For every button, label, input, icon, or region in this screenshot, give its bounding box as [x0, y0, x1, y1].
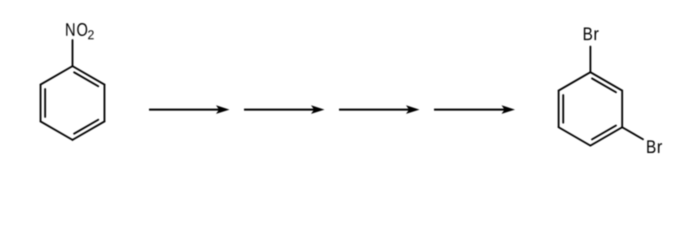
- wire: right ring bond UL-T: [559, 72, 591, 90]
- wire: right ring bond UR-LR: [621, 91, 623, 128]
- Br label (top): [584, 28, 599, 41]
- wire: left ring bond LR-B: [73, 121, 105, 139]
- wire: right ring bond LL-UL: [558, 91, 560, 128]
- wire: right ring bond T-UR: [590, 72, 622, 90]
- wire: right ring double-bond inner line T-UR: [592, 78, 616, 92]
- wire: right ring bond B-LL: [559, 127, 591, 145]
- wire: C-N bond to NO2 group: [72, 40, 74, 66]
- wire: left ring double-bond inner line T-UR: [74, 72, 98, 86]
- reaction arrow 1: [149, 105, 230, 114]
- wire: left ring double-bond inner line LL-UL: [44, 89, 46, 117]
- wire: right ring double-bond inner line LR-B: [592, 126, 616, 140]
- wire: C-Br bond (bottom-right): [622, 127, 643, 139]
- wire: right ring double-bond inner line LL-UL: [562, 95, 564, 123]
- reaction arrow 4: [434, 105, 515, 114]
- wire: left ring bond UL-T: [41, 66, 73, 84]
- wire: left ring bond T-UR: [73, 66, 105, 84]
- wire: left ring double-bond inner line LR-B: [74, 120, 98, 134]
- wire: left ring bond LL-UL: [40, 85, 42, 122]
- wire: left ring bond B-LL: [41, 121, 73, 139]
- benzene ring of 1,3-dibromobenzene: [559, 72, 623, 145]
- wire: right ring bond LR-B: [590, 127, 622, 145]
- wire: left ring bond UR-LR: [103, 85, 105, 122]
- Br label (bottom-right): [647, 140, 662, 153]
- reaction arrow 2: [244, 105, 325, 114]
- wire: C-Br bond (top): [589, 47, 591, 73]
- benzene ring of nitrobenzene: [41, 66, 105, 140]
- reaction scheme: nitrobenzene converted to 1,3-dibromobenzene over four steps: [0, 0, 680, 188]
- NO2 label (nitro group): [66, 23, 93, 39]
- reaction arrow 3: [339, 105, 420, 114]
